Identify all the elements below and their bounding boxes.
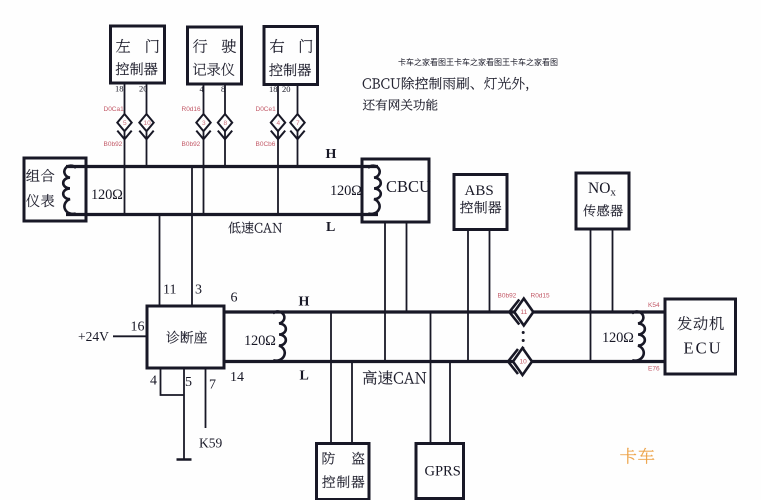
svg-text:H: H (299, 295, 310, 310)
svg-text:B0b92: B0b92 (498, 293, 517, 300)
text right door controller line1 (270, 39, 312, 53)
text left door controller line2 (116, 62, 158, 75)
box anti-theft controller (317, 444, 370, 500)
text NOx sensor line2 (583, 204, 622, 216)
svg-text:5: 5 (185, 375, 192, 390)
svg-text:D0Ce1: D0Ce1 (256, 106, 277, 113)
svg-text:8: 8 (221, 84, 225, 94)
label low-speed CAN (229, 222, 282, 234)
svg-text:16: 16 (131, 320, 145, 335)
svg-text:L: L (300, 369, 309, 384)
wire diag pin11 to L bus (159, 215, 161, 307)
wire diag pin7 to K59 (205, 368, 207, 428)
svg-text:ECU: ECU (684, 339, 723, 358)
inductor 120ohm diagnostic socket (273, 311, 286, 360)
svg-text:120Ω: 120Ω (602, 330, 634, 346)
svg-text:3: 3 (195, 283, 202, 298)
wire NOx pin2 to H bus (612, 229, 614, 312)
wire ABS pin1 to L bus (467, 230, 469, 362)
box instrument cluster (24, 158, 86, 221)
svg-text:B0b92: B0b92 (104, 141, 123, 148)
inductor 120ohm engine ECU (632, 311, 645, 360)
text ABS controller line2 (460, 201, 501, 214)
text right door controller line2 (269, 63, 311, 76)
box NOx sensor (576, 173, 629, 229)
svg-text:H: H (326, 147, 337, 162)
box diagnostic socket (147, 306, 224, 368)
svg-text:K54: K54 (648, 302, 660, 309)
svg-text:E76: E76 (648, 366, 660, 373)
ground symbol (177, 458, 192, 461)
svg-text:卡车之家看图王卡车之家看图王卡车之家看图: 卡车之家看图王卡车之家看图王卡车之家看图 (398, 57, 558, 67)
svg-text:8: 8 (224, 120, 228, 127)
wire CBCU pin2 to H bus (406, 222, 408, 312)
twisted-pair diamond high-speed H (514, 299, 533, 326)
svg-text:GPRS: GPRS (425, 464, 461, 480)
svg-text:10: 10 (520, 359, 528, 366)
wire diag pin3 to H bus (191, 167, 193, 307)
wire anti-theft pin1 to H bus (330, 312, 332, 444)
text instrument cluster line2 (26, 194, 54, 207)
svg-text:20: 20 (282, 84, 291, 94)
svg-text:20: 20 (139, 84, 148, 94)
svg-text:14: 14 (230, 370, 244, 385)
note CBCU gateway remark line1 (363, 77, 528, 91)
svg-text:120Ω: 120Ω (330, 183, 362, 199)
box CBCU (362, 159, 429, 222)
twisted-pair diamond recorder wire4 (196, 114, 210, 131)
text anti-theft line1 (323, 452, 365, 465)
box left door controller (111, 26, 165, 83)
svg-text:11: 11 (163, 283, 176, 298)
twisted pair symbols top row (117, 114, 304, 139)
wire low-speed CAN H bus (66, 165, 378, 168)
svg-text:R0d16: R0d16 (182, 106, 202, 113)
wire GPRS pin2 to L bus (449, 362, 451, 444)
wire low-speed CAN L bus (66, 213, 378, 216)
note CBCU gateway remark line2 (363, 99, 437, 111)
svg-text:11: 11 (521, 309, 528, 316)
wire ABS pin2 to H bus (489, 230, 491, 313)
svg-text:18: 18 (115, 84, 124, 94)
text driving recorder line2 (193, 63, 234, 76)
svg-text:4: 4 (150, 374, 157, 389)
wire high-speed CAN L bus (224, 360, 665, 363)
box ABS controller (454, 175, 507, 230)
wire recorder pin8 to H bus (224, 84, 226, 167)
svg-text:B0Cb6: B0Cb6 (256, 141, 276, 148)
svg-text:7: 7 (296, 120, 300, 127)
twisted-pair diamond left door wire20 (139, 114, 153, 131)
twisted-pair diamond recorder wire8 (218, 114, 232, 131)
svg-text:L: L (326, 220, 335, 235)
text diagnostic socket (166, 331, 207, 344)
svg-text:3: 3 (202, 120, 206, 127)
twisted pair symbols high-speed bus (508, 299, 533, 376)
wire +24V to diag pin16 (113, 335, 147, 337)
twisted-pair diamond left door wire18 (117, 114, 131, 131)
inductor 120ohm CBCU (368, 166, 381, 214)
twisted-pair diamond right door wire18 (271, 114, 285, 131)
svg-text:18: 18 (269, 84, 278, 94)
svg-text:5: 5 (123, 120, 127, 127)
svg-text:4: 4 (277, 120, 281, 127)
box right door controller (264, 27, 318, 85)
dotted link between twisted pairs (522, 331, 525, 349)
wire right door pin20 to H bus (297, 85, 299, 167)
twisted-pair diamond right door wire20 (290, 114, 304, 131)
wire left door pin20 to H bus (146, 83, 148, 167)
svg-text:+24V: +24V (78, 329, 109, 344)
wire anti-theft pin2 to L bus (351, 362, 353, 444)
svg-text:120Ω: 120Ω (91, 187, 123, 203)
svg-text:ABS: ABS (465, 183, 494, 199)
wire diag pin5 to ground (183, 368, 185, 459)
svg-text:CBCU: CBCU (386, 177, 431, 196)
twisted-pair diamond high-speed L (513, 348, 532, 375)
text engine ECU line1 (678, 316, 724, 330)
text instrument cluster line1 (26, 169, 54, 182)
wire recorder pin4 to L bus (203, 84, 205, 215)
svg-text:120Ω: 120Ω (244, 333, 276, 349)
wire left door pin18 to L bus (124, 83, 126, 215)
svg-text:B0b92: B0b92 (182, 141, 201, 148)
wire high-speed CAN H bus (224, 310, 665, 313)
svg-text:6: 6 (231, 291, 238, 306)
wire NOx pin1 to L bus (590, 229, 592, 362)
box GPRS (416, 444, 464, 499)
svg-text:7: 7 (209, 378, 216, 393)
text anti-theft line2 (322, 476, 364, 489)
wire GPRS pin1 to H bus (430, 312, 432, 444)
svg-text:R0d15: R0d15 (531, 293, 551, 300)
inductor 120ohm instrument cluster (63, 166, 76, 214)
watermark kache (620, 448, 654, 464)
svg-text:D0Ca1: D0Ca1 (104, 106, 125, 113)
label high-speed CAN (363, 370, 426, 384)
svg-text:K59: K59 (199, 436, 222, 451)
text left door controller line1 (116, 39, 159, 53)
wire diag pin4 down (161, 368, 185, 395)
svg-text:10: 10 (144, 120, 152, 127)
box engine ECU (665, 299, 736, 374)
box driving recorder (188, 27, 242, 84)
wire CBCU pin1 to L bus (384, 222, 386, 362)
text driving recorder line1 (193, 39, 236, 53)
wire right door pin18 to L bus (277, 85, 279, 215)
